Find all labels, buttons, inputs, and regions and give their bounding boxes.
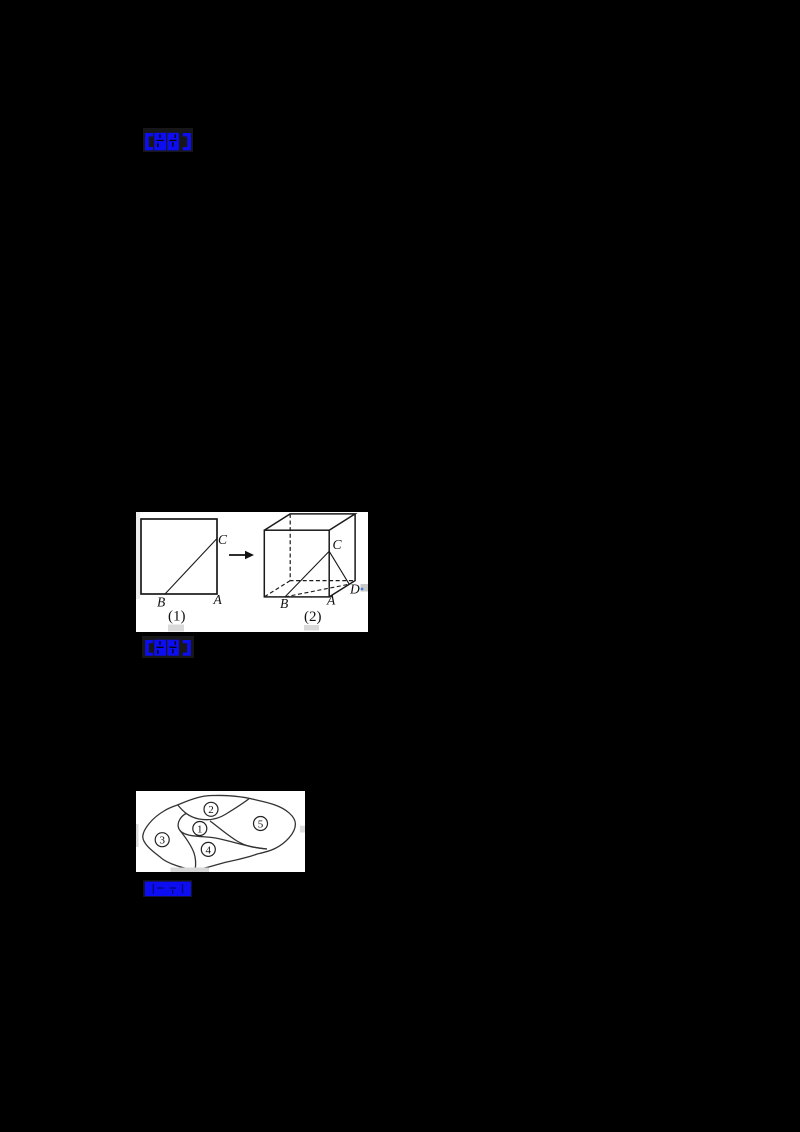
svg-text:A: A (326, 593, 336, 608)
svg-text:D: D (349, 582, 360, 597)
svg-text:4: 4 (206, 844, 212, 856)
svg-text:1: 1 (197, 823, 203, 835)
svg-text:C: C (333, 537, 343, 552)
svg-text:3: 3 (159, 835, 165, 847)
svg-text:A: A (213, 592, 223, 607)
svg-text:5: 5 (258, 818, 264, 830)
svg-text:B: B (280, 596, 288, 611)
svg-text:(2): (2) (304, 609, 322, 625)
svg-text:(1): (1) (168, 609, 186, 625)
svg-text:C: C (218, 532, 228, 547)
svg-text:2: 2 (208, 804, 214, 816)
svg-text:B: B (157, 595, 165, 610)
